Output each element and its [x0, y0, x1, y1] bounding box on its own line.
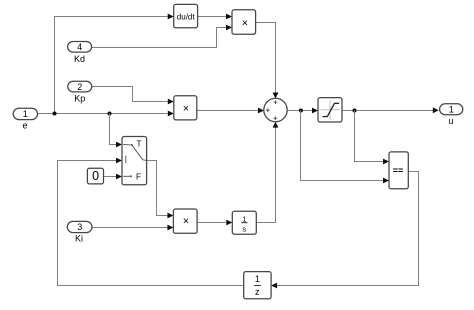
arrowhead into mid product in1 — [168, 99, 174, 105]
product block middle — [174, 96, 197, 120]
saturation block — [318, 98, 342, 122]
arrowhead into switch input 3 — [116, 174, 122, 180]
svg-text:2: 2 — [77, 82, 82, 92]
arrowhead into top product in2 — [226, 25, 232, 31]
arrowhead into outport u — [433, 107, 439, 113]
wire du/dt output to product in1 — [198, 16, 226, 18]
svg-text:Ki: Ki — [75, 234, 83, 244]
wire Kp to mid product in1 — [92, 87, 168, 102]
svg-text:×: × — [183, 103, 189, 115]
node junction on e wire at x=54.7 — [53, 112, 57, 116]
wire lower product output to integrator — [197, 222, 226, 224]
arrowhead into lower product in1 — [167, 213, 173, 219]
switch block — [122, 137, 147, 185]
wire Ki to lower product in2 — [92, 227, 167, 229]
arrowhead into sum left — [258, 108, 264, 114]
arrowhead into lower product in2 — [167, 225, 173, 231]
svg-text:u: u — [448, 116, 453, 126]
wire constant 0 to switch input 3 — [104, 176, 117, 178]
svg-text:1: 1 — [242, 214, 246, 223]
svg-text:4: 4 — [77, 42, 82, 52]
svg-text:T: T — [137, 140, 142, 149]
wire saturation junction down to == input 1 — [355, 111, 384, 162]
svg-text:1: 1 — [255, 274, 260, 284]
svg-text:e: e — [22, 120, 27, 130]
svg-text:×: × — [242, 18, 248, 30]
relational operator == block — [389, 152, 408, 189]
arrowhead into unit delay (pointing left) — [271, 283, 277, 289]
arrowhead into == input 1 — [383, 159, 389, 165]
arrowhead into du/dt — [168, 14, 174, 20]
svg-text:1: 1 — [449, 104, 454, 114]
svg-text:Kp: Kp — [74, 93, 85, 103]
svg-text:0: 0 — [92, 169, 99, 183]
arrowhead into switch input 1 — [116, 142, 122, 148]
arrowhead into integrator — [226, 220, 232, 226]
wire sum output to saturation — [287, 110, 312, 112]
svg-text:1: 1 — [23, 109, 28, 119]
product block lower — [173, 209, 197, 233]
svg-text:×: × — [183, 215, 189, 227]
wire mid product output to sum left — [197, 110, 258, 112]
inport 1 e — [13, 108, 37, 130]
wire Kd to product in2 — [92, 28, 226, 48]
inport 2 Kp — [68, 81, 92, 103]
node junction after saturation — [353, 109, 357, 113]
arrowhead into sum bottom — [273, 122, 279, 128]
wire switch output down to lower product in1 — [147, 161, 168, 216]
wire junction down to switch input 1 — [110, 114, 117, 145]
svg-text:3: 3 — [77, 222, 82, 232]
arrowhead into switch input 2 — [116, 158, 122, 164]
svg-text:du/dt: du/dt — [177, 13, 196, 22]
wire top product output to sum top — [256, 23, 276, 93]
constant 0 block — [87, 168, 103, 184]
wire sum junction down to == input 2 — [301, 111, 384, 181]
product block top — [232, 10, 256, 35]
wire integrator output to sum bottom — [256, 128, 275, 223]
svg-text:z: z — [255, 287, 260, 297]
wire saturation output to outport u — [342, 110, 434, 112]
derivative block du/dt — [174, 4, 198, 27]
inport 4 Kd — [68, 42, 92, 64]
wire e column up to derivative — [55, 17, 168, 114]
arrowhead into saturation — [312, 108, 318, 114]
outport 1 u — [440, 104, 463, 126]
svg-text:==: == — [393, 165, 404, 175]
arrowhead into top product in1 — [226, 14, 232, 20]
arrowhead into == input 2 — [383, 178, 389, 184]
sum block — [264, 98, 287, 121]
integrator block 1/s — [232, 211, 256, 234]
arrowhead into mid product in2 — [168, 111, 174, 117]
svg-text:s: s — [242, 224, 246, 233]
node junction on e wire at x=109.5 — [108, 112, 112, 116]
wire unit delay output feedback to switch input 2 — [58, 161, 244, 286]
node junction after sum — [299, 109, 303, 113]
wire e output to mid product in2 — [38, 113, 168, 115]
svg-text:Kd: Kd — [74, 54, 85, 64]
arrowhead into sum top — [273, 93, 279, 99]
unit delay block 1/z — [244, 272, 271, 299]
inport 3 Ki — [67, 221, 92, 243]
svg-text:F: F — [136, 172, 141, 181]
wire == output down to unit delay — [277, 172, 418, 286]
